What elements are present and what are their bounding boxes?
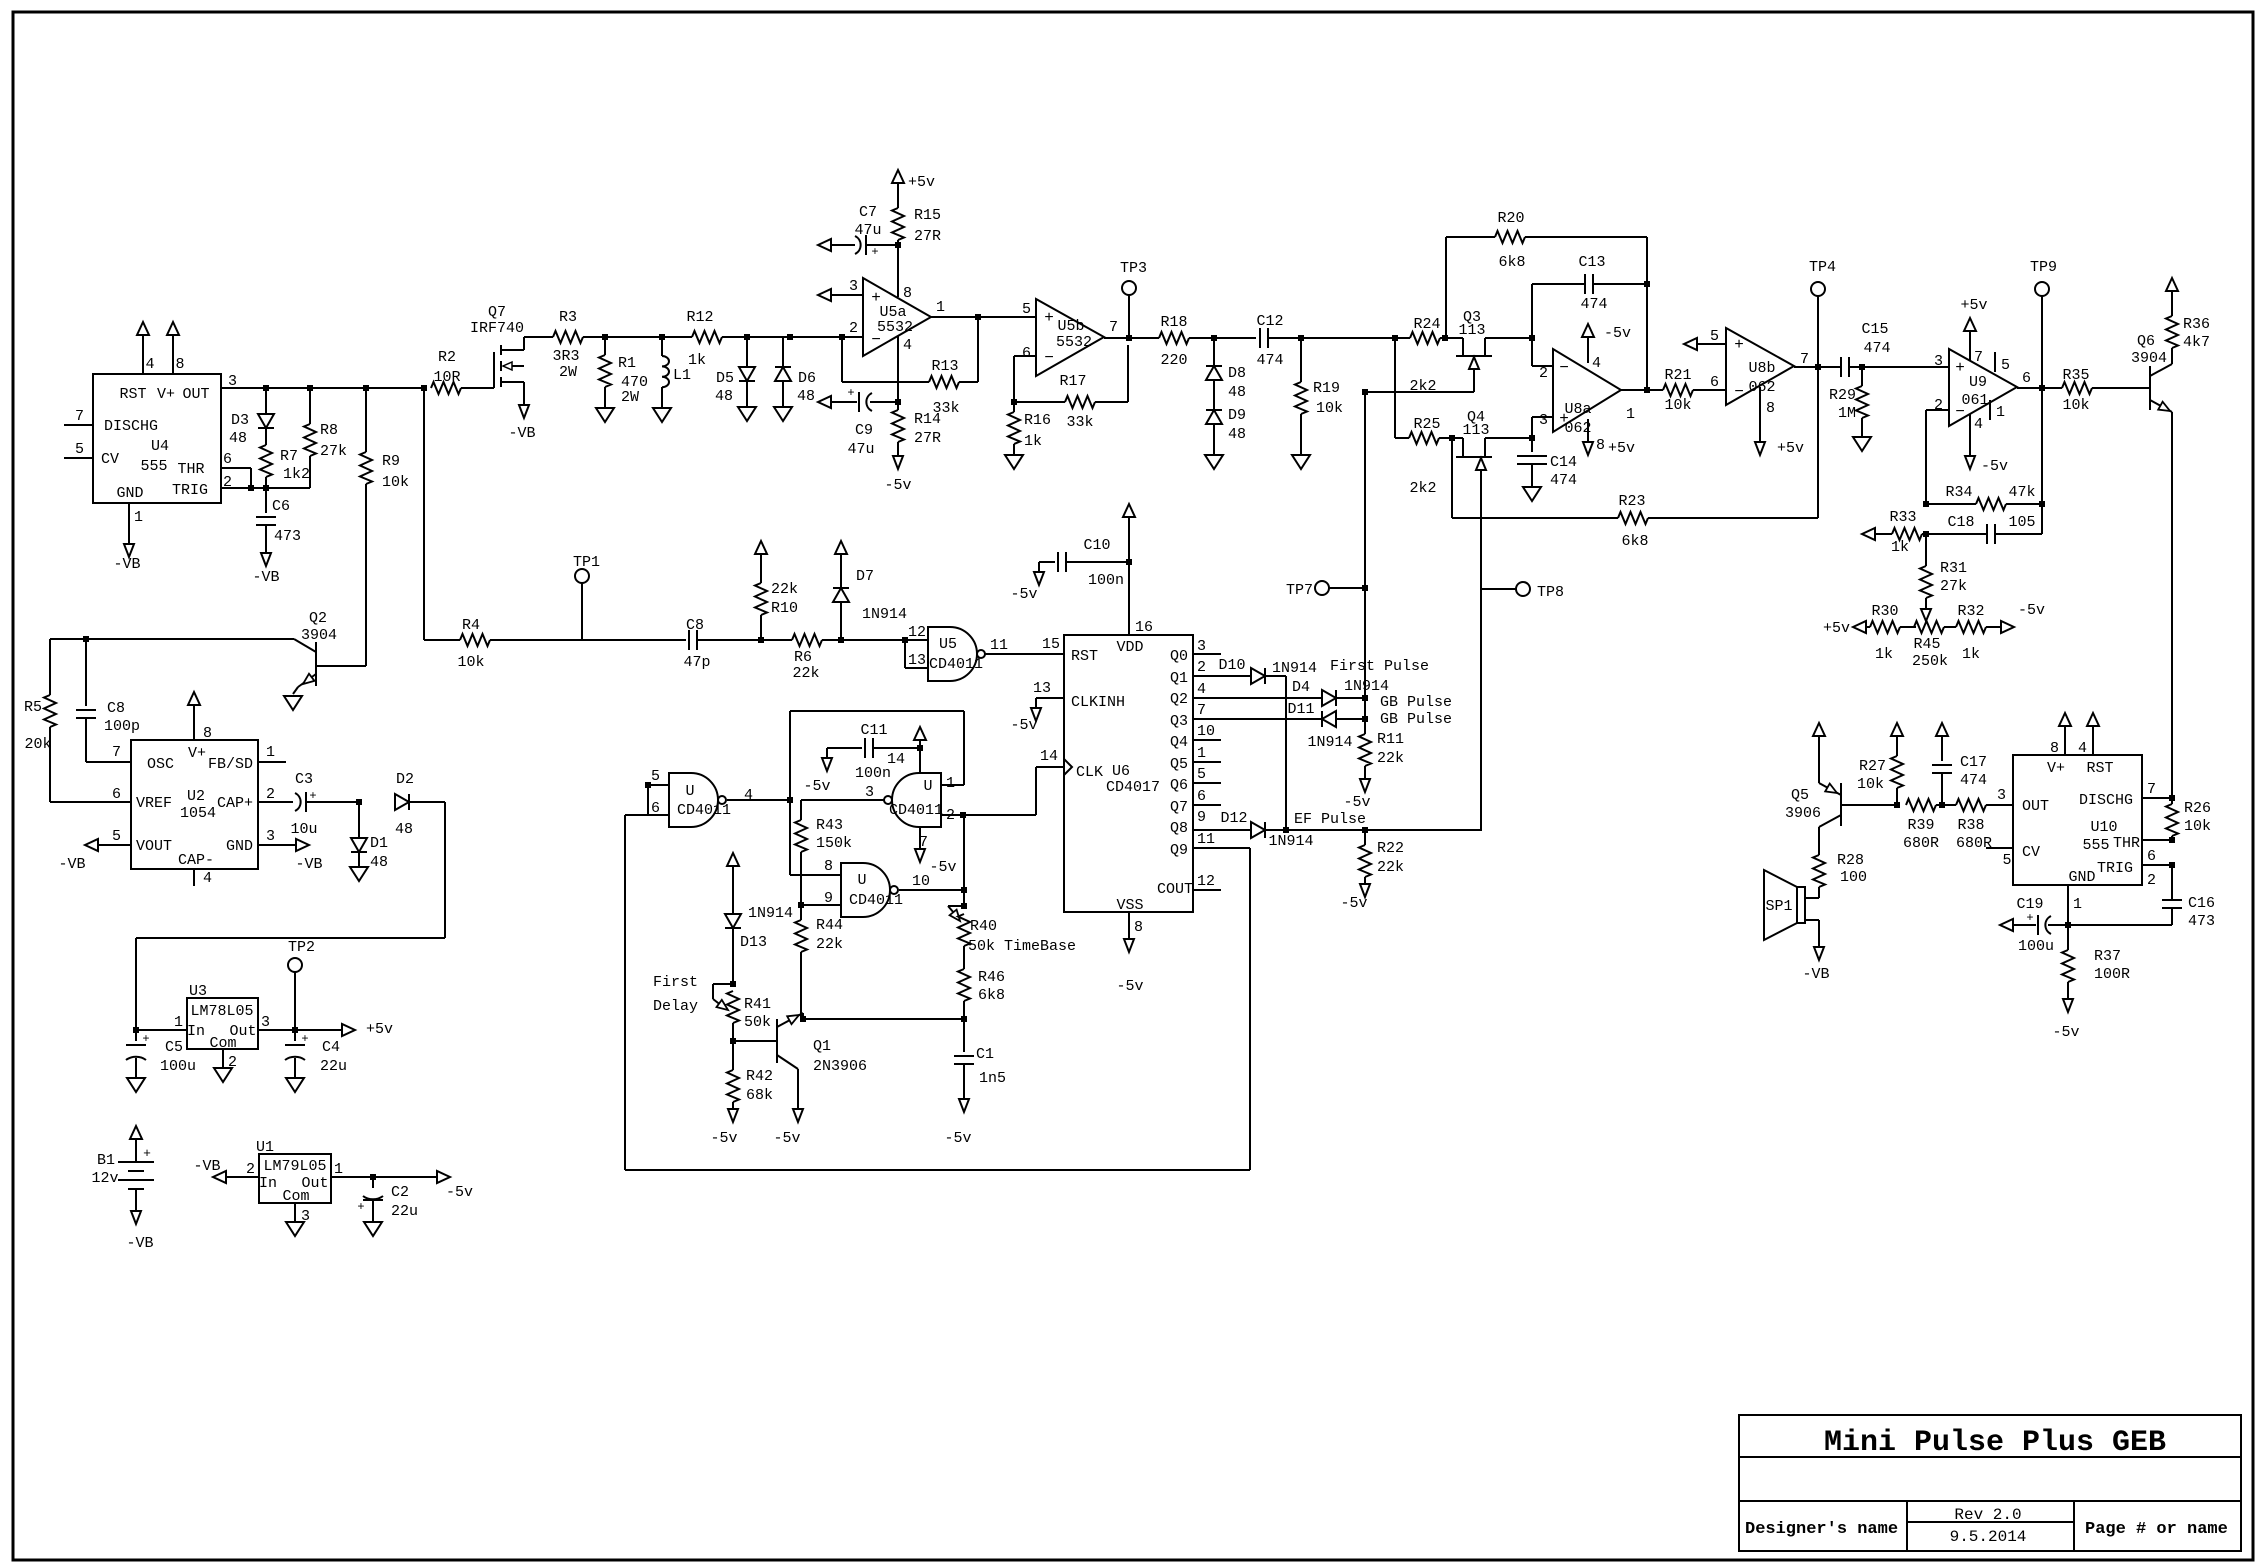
inductor L1 [661,337,663,356]
wire U8a pin3 [1531,417,1533,438]
-5v arrow R11 [1360,779,1370,792]
+5v arrow U8b [1759,387,1761,441]
svg-text:CD4011: CD4011 [889,802,943,819]
svg-text:Page # or name: Page # or name [2085,1520,2228,1539]
svg-text:9.5.2014: 9.5.2014 [1950,1528,2027,1546]
-VB arrow B1 [131,1211,141,1224]
ground C14 [1523,487,1541,501]
resistor R34 [1923,501,1929,507]
svg-text:GND: GND [116,485,143,502]
wire gate2 pin1 [941,784,964,786]
resistor R33 [1862,528,1875,540]
svg-text:-5v: -5v [773,1130,800,1147]
svg-text:R3: R3 [559,309,577,326]
svg-text:R13: R13 [931,358,958,375]
svg-text:2N3906: 2N3906 [813,1058,867,1075]
svg-text:13: 13 [908,652,926,669]
svg-text:5: 5 [1197,766,1206,783]
svg-text:Q6: Q6 [1170,777,1188,794]
wire gate2pin2 column [963,711,965,785]
svg-text:7: 7 [919,834,928,851]
svg-text:3: 3 [1934,353,1943,370]
svg-text:D2: D2 [396,771,414,788]
transistor Q1 2N3906 [733,1040,777,1042]
svg-text:8: 8 [1134,919,1143,936]
wire U9 pin2 [1926,409,1949,411]
svg-text:D13: D13 [740,934,767,951]
svg-text:1: 1 [1626,406,1635,423]
capacitor C6 [265,488,267,513]
svg-text:GND: GND [226,838,253,855]
svg-text:U8a: U8a [1564,401,1591,418]
diode D9 [1213,380,1215,410]
wire gate3 pin8 [790,874,841,876]
svg-text:U2: U2 [187,788,205,805]
svg-text:V+: V+ [188,745,206,762]
svg-text:48: 48 [370,854,388,871]
svg-text:4: 4 [145,356,154,373]
svg-text:1k: 1k [1891,539,1909,556]
svg-text:8: 8 [2050,740,2059,757]
wire U5b pin6 [1014,355,1036,357]
svg-text:7: 7 [2147,781,2156,798]
svg-text:C3: C3 [295,771,313,788]
potentiometer R40 50k TimeBase [961,903,967,909]
svg-text:R16: R16 [1024,412,1051,429]
svg-text:100: 100 [1840,869,1867,886]
IC U6 CD4017 body [1064,635,1193,912]
op-amp U8a 062 [1553,349,1621,432]
ground R19 [1292,455,1310,469]
svg-text:3R3: 3R3 [552,348,579,365]
svg-text:R6: R6 [794,649,812,666]
resistor R6 [792,634,822,646]
svg-text:U5: U5 [939,636,957,653]
svg-text:C5: C5 [165,1039,183,1056]
resistor R10 [755,541,767,554]
svg-text:R15: R15 [914,207,941,224]
svg-text:THR: THR [177,461,204,478]
svg-text:U4: U4 [151,438,169,455]
svg-text:7: 7 [75,408,84,425]
svg-text:-5v: -5v [1010,586,1037,603]
svg-text:R30: R30 [1871,603,1898,620]
svg-text:20k: 20k [24,736,51,753]
resistor R3 [553,331,583,343]
svg-text:8: 8 [1596,437,1605,454]
power arrow U10 pin4 [2087,713,2099,726]
U6 CLKINH pin13 [1036,697,1064,699]
svg-text:6: 6 [1022,345,1031,362]
svg-text:R18: R18 [1160,314,1187,331]
resistor R17 feedback [1014,401,1065,403]
wire D10 to EF line [1285,676,1287,831]
svg-text:D5: D5 [716,370,734,387]
svg-text:R34: R34 [1945,484,1972,501]
svg-text:R31: R31 [1940,560,1967,577]
U2 FB/SD stub [258,761,286,763]
ground Q2 [284,696,302,710]
svg-text:10k: 10k [1316,400,1343,417]
-5v arrow R32 [2001,621,2014,633]
svg-text:+: + [1734,336,1744,354]
ground C4 [286,1078,304,1092]
svg-text:R1: R1 [618,355,636,372]
svg-text:DISCHG: DISCHG [2079,792,2133,809]
svg-text:5: 5 [2002,852,2011,869]
-5v arrow Q1 [793,1109,803,1122]
wire gate2 out pin3 [801,799,884,801]
svg-text:555: 555 [140,458,167,475]
svg-text:R35: R35 [2062,367,2089,384]
diode D13 1N914 [725,914,741,928]
svg-text:3: 3 [1539,412,1548,429]
svg-text:CV: CV [2022,844,2040,861]
svg-text:250k: 250k [1912,653,1948,670]
svg-text:10R: 10R [433,369,460,386]
svg-text:680R: 680R [1956,835,1992,852]
svg-text:16: 16 [1135,619,1153,636]
resistor R43 [800,800,802,820]
svg-text:R5: R5 [24,699,42,716]
svg-text:TP4: TP4 [1809,259,1836,276]
wire gate3 pin9 [798,902,804,908]
svg-text:D11: D11 [1287,701,1314,718]
svg-text:COUT: COUT [1157,881,1193,898]
svg-text:R42: R42 [746,1068,773,1085]
svg-text:D3: D3 [231,412,249,429]
resistor R46 [963,946,965,969]
U2 VREF pin6 wire [50,801,131,803]
svg-text:113: 113 [1462,422,1489,439]
U4 pin7 stub [64,424,93,426]
nand gate U CD4011 third [841,863,890,917]
svg-text:Q5: Q5 [1170,756,1188,773]
svg-text:473: 473 [2188,913,2215,930]
svg-text:50k: 50k [744,1014,771,1031]
svg-text:10k: 10k [1664,397,1691,414]
resistor R13 feedback [839,334,845,340]
svg-text:6: 6 [1710,374,1719,391]
svg-text:1: 1 [334,1161,343,1178]
wire Q7 drain row [524,336,553,338]
power arrow U10 pin8 [2059,713,2071,726]
diode D4 [1193,697,1322,699]
svg-text:+: + [143,1146,151,1161]
capacitor C2 22u [372,1177,374,1188]
svg-text:U6: U6 [1112,763,1130,780]
svg-text:D12: D12 [1220,810,1247,827]
svg-text:−: − [1559,359,1569,377]
svg-text:22u: 22u [391,1203,418,1220]
svg-text:1k: 1k [1024,433,1042,450]
svg-text:1N914: 1N914 [1307,734,1352,751]
svg-text:VSS: VSS [1116,897,1143,914]
svg-text:062: 062 [1748,379,1775,396]
svg-text:-5v: -5v [446,1184,473,1201]
+5v arrow U8a [1587,419,1589,441]
wire U5 out to U6 RST [985,653,1064,655]
resistor R26 [2171,798,2173,804]
svg-text:Q1: Q1 [813,1038,831,1055]
svg-text:9: 9 [1197,809,1206,826]
svg-text:474: 474 [1863,340,1890,357]
wire U9 out [2017,387,2062,389]
diode D12 [1193,829,1251,831]
svg-text:3906: 3906 [1785,805,1821,822]
svg-text:GB Pulse: GB Pulse [1380,711,1452,728]
U10 CV stub [1986,847,2013,849]
svg-text:Mini Pulse Plus GEB: Mini Pulse Plus GEB [1824,1426,2166,1460]
resistor R32 [1956,621,1986,633]
svg-text:R33: R33 [1889,509,1916,526]
svg-text:10k: 10k [457,654,484,671]
resistor R28 [1818,827,1820,855]
svg-text:In: In [187,1023,205,1040]
svg-text:C1: C1 [976,1046,994,1063]
svg-text:-5v: -5v [944,1130,971,1147]
svg-text:2: 2 [246,1161,255,1178]
svg-text:105: 105 [2008,514,2035,531]
svg-text:3: 3 [1197,638,1206,655]
svg-text:Q2: Q2 [1170,691,1188,708]
svg-text:CAP-: CAP- [178,852,214,869]
svg-text:+: + [1044,309,1054,327]
svg-text:2: 2 [266,786,275,803]
capacitor C18 [1926,533,1987,535]
svg-text:U10: U10 [2090,819,2117,836]
svg-text:D4: D4 [1292,679,1310,696]
svg-text:1n5: 1n5 [979,1070,1006,1087]
capacitor C5 100u [135,1030,137,1041]
svg-text:RST: RST [2086,760,2113,777]
nand gate U5 CD4011 [928,627,977,681]
U10 DISCHG pin7 [2142,797,2172,799]
svg-text:Q8: Q8 [1170,820,1188,837]
resistor R38 [1936,804,1956,806]
svg-text:Q6: Q6 [2137,333,2155,350]
svg-text:11: 11 [990,637,1008,654]
transistor Q7 IRF740 [493,352,495,388]
svg-text:Delay: Delay [653,998,698,1015]
svg-text:D10: D10 [1218,657,1245,674]
resistor R22 [1364,830,1366,845]
wire U4 OUT row [221,387,424,389]
ground D5 [738,407,756,421]
op-amp U8b 062 [1726,328,1794,405]
U10 THR pin6 [2142,839,2172,841]
svg-text:1N914: 1N914 [1272,660,1317,677]
svg-text:GND: GND [2068,869,2095,886]
svg-text:+5v: +5v [1608,440,1635,457]
svg-text:474: 474 [1960,772,1987,789]
svg-text:22u: 22u [320,1058,347,1075]
resistor R39 [1906,799,1936,811]
U10 TRIG pin2 [2142,864,2172,866]
svg-text:10k: 10k [2184,818,2211,835]
capacitor C8 100p [85,639,87,706]
+5v arrow U3 [342,1024,355,1036]
nand gate U CD4011 second [892,773,941,827]
ground L1 [653,408,671,422]
svg-text:OSC: OSC [147,756,174,773]
svg-text:R2: R2 [438,349,456,366]
svg-text:R25: R25 [1413,416,1440,433]
diode D3 [265,388,267,414]
capacitor C9 47u [818,396,831,408]
resistor R19 [1300,338,1302,382]
capacitor C8 47p [688,630,690,650]
U4 pin5 stub [64,457,93,459]
svg-text:D7: D7 [856,568,874,585]
wire gate2 to CLK [963,814,1036,816]
svg-text:100u: 100u [2018,938,2054,955]
ground C5 [127,1078,145,1092]
power arrow C11 pin14 [914,727,926,740]
svg-text:R21: R21 [1664,367,1691,384]
svg-text:Q9: Q9 [1170,842,1188,859]
svg-text:100p: 100p [104,718,140,735]
svg-text:C9: C9 [855,422,873,439]
svg-text:R37: R37 [2094,948,2121,965]
input arrow U8b pin5 [1684,338,1697,350]
svg-text:C7: C7 [859,204,877,221]
svg-text:THR: THR [2113,835,2140,852]
ground D1 [350,867,368,881]
svg-text:50k TimeBase: 50k TimeBase [968,938,1076,955]
resistor R15 [892,170,904,183]
svg-text:C6: C6 [272,498,290,515]
svg-text:R36: R36 [2183,316,2210,333]
svg-text:LM78L05: LM78L05 [190,1003,253,1020]
wire U3 Out [258,1029,342,1031]
resistor R42 [732,1023,734,1041]
ground D6 [774,407,792,421]
svg-text:5: 5 [75,441,84,458]
svg-text:+5v: +5v [1777,440,1804,457]
svg-text:C14: C14 [1550,454,1577,471]
wire U1 Out [331,1176,437,1178]
svg-text:1N914: 1N914 [1268,833,1313,850]
svg-text:EF Pulse: EF Pulse [1294,811,1366,828]
svg-text:1: 1 [946,775,955,792]
svg-text:14: 14 [887,751,905,768]
svg-text:SP1: SP1 [1765,898,1792,915]
U2 OSC pin7 wire [86,761,131,763]
svg-text:15: 15 [1042,636,1060,653]
svg-text:10u: 10u [290,821,317,838]
svg-text:-VB: -VB [193,1158,220,1175]
svg-text:+: + [309,789,316,803]
svg-text:-VB: -VB [1802,966,1829,983]
svg-text:8: 8 [824,858,833,875]
svg-text:CAP+: CAP+ [217,795,253,812]
svg-text:6k8: 6k8 [1621,533,1648,550]
svg-text:22k: 22k [792,665,819,682]
svg-text:2: 2 [2147,872,2156,889]
svg-text:FB/SD: FB/SD [208,756,253,773]
svg-text:4: 4 [2078,740,2087,757]
svg-text:Q7: Q7 [1170,799,1188,816]
-VB arrow C6 [261,553,271,566]
svg-text:2W: 2W [621,389,639,406]
resistor R14 [895,399,901,405]
svg-text:22k: 22k [816,936,843,953]
capacitor C13 [1531,284,1533,338]
svg-text:-VB: -VB [113,556,140,573]
title block box [1739,1415,2241,1551]
svg-text:C12: C12 [1256,313,1283,330]
svg-text:R11: R11 [1377,731,1404,748]
resistor R44 [800,905,802,920]
svg-text:Rev 2.0: Rev 2.0 [1954,1506,2021,1524]
svg-text:CLKINH: CLKINH [1071,694,1125,711]
svg-text:R27: R27 [1859,758,1886,775]
svg-text:1N914: 1N914 [862,606,907,623]
ground C2 [364,1222,382,1236]
svg-text:6k8: 6k8 [978,987,1005,1004]
svg-text:6: 6 [112,786,121,803]
resistor R18 [1159,332,1189,344]
resistor R12 [692,331,722,343]
svg-text:TP7: TP7 [1286,582,1313,599]
svg-text:33k: 33k [932,400,959,417]
wire U5a out to U5b [931,316,1036,318]
potentiometer R45 [1900,626,1916,628]
diode D10 [1193,675,1251,677]
wire U5 pin13 tie [904,640,906,668]
svg-text:+: + [357,1200,364,1214]
svg-text:First: First [653,974,698,991]
svg-text:Designer's name: Designer's name [1745,1520,1898,1539]
svg-text:47u: 47u [847,441,874,458]
svg-text:2: 2 [849,320,858,337]
ground U1 Com [286,1222,304,1236]
svg-text:22k: 22k [1377,859,1404,876]
svg-text:100n: 100n [855,765,891,782]
svg-text:1054: 1054 [180,805,216,822]
ground R29 [1853,437,1871,451]
resistor R4 [460,634,490,646]
svg-text:-VB: -VB [295,856,322,873]
capacitor C12 [1259,328,1261,348]
svg-text:1: 1 [174,1014,183,1031]
svg-text:U5b: U5b [1057,318,1084,335]
svg-text:14: 14 [1040,748,1058,765]
diode D6 [782,337,784,367]
svg-text:R19: R19 [1313,380,1340,397]
svg-text:-5v: -5v [1340,895,1367,912]
test point TP8 [1481,588,1516,590]
svg-text:B1: B1 [97,1152,115,1169]
svg-text:5532: 5532 [1056,334,1092,351]
svg-text:−: − [1734,383,1744,401]
wire Q3 gate [1365,391,1474,393]
svg-text:13: 13 [1033,680,1051,697]
svg-text:10: 10 [912,873,930,890]
U2 VOUT -VB arrow [85,839,98,851]
svg-text:R38: R38 [1957,817,1984,834]
svg-text:TP9: TP9 [2030,259,2057,276]
svg-text:Q2: Q2 [309,610,327,627]
potentiometer R41 50k [730,981,736,987]
svg-text:R17: R17 [1059,373,1086,390]
capacitor C7 47u [818,239,831,251]
svg-text:1: 1 [134,509,143,526]
resistor R1 [604,337,606,355]
svg-text:+5v: +5v [366,1021,393,1038]
svg-text:R26: R26 [2184,800,2211,817]
